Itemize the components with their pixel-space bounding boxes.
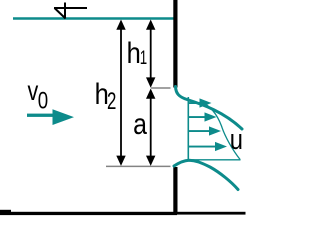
gate wall lower: [173, 167, 177, 214]
svg-text:2: 2: [107, 88, 116, 115]
velocity profile baseline vertical: [187, 97, 189, 160]
floor right: [177, 212, 246, 215]
dimension line a: [146, 89, 155, 166]
velocity arrow 4: [189, 142, 227, 151]
v0 arrow: [27, 109, 74, 125]
floor left: [0, 212, 177, 215]
velocity arrow 1: [189, 98, 212, 107]
velocity arrow 3: [189, 126, 221, 135]
gate wall upper: [173, 0, 177, 88]
jet lower boundary curve: [174, 160, 238, 189]
svg-text:u: u: [230, 123, 243, 156]
free-surface symbol: [54, 3, 87, 19]
dimension line h1: [146, 20, 155, 88]
water surface line: [13, 17, 175, 20]
svg-text:a: a: [133, 107, 147, 141]
svg-text:0: 0: [38, 87, 48, 114]
jet upper boundary curve: [176, 87, 243, 130]
svg-text:h: h: [127, 36, 141, 69]
extension line mid (orifice top): [151, 87, 171, 89]
velocity arrow 2: [189, 112, 217, 121]
velocity profile envelope curve: [201, 102, 241, 160]
svg-text:1: 1: [140, 48, 147, 69]
extension line bottom (orifice bottom): [106, 165, 171, 167]
velocity profile bottom line: [188, 159, 240, 161]
dimension line h2: [116, 20, 125, 166]
floor left end stub: [0, 210, 11, 215]
